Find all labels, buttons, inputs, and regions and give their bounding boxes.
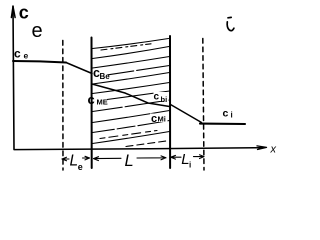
right dashed vertical (internal boundary) <box>203 39 204 171</box>
y-axis arrowhead <box>11 7 15 18</box>
svg-text:e: e <box>24 51 29 61</box>
hatch line 6 <box>93 83 170 94</box>
hatch line 3 <box>93 57 170 69</box>
profile: membrane interior <box>92 84 170 107</box>
svg-text:x: x <box>270 144 277 156</box>
hatch fragment 1b <box>101 44 151 50</box>
svg-text:ME: ME <box>97 98 108 107</box>
x-axis arrowhead <box>252 146 267 150</box>
hatch line 11 <box>93 132 170 144</box>
svg-text:Mi: Mi <box>158 114 166 123</box>
svg-text:c: c <box>19 3 29 23</box>
svg-text:e: e <box>78 162 83 172</box>
x-axis <box>14 148 256 150</box>
dimension L arrows <box>94 157 122 161</box>
dimension L_e arrows <box>62 157 69 161</box>
svg-text:L: L <box>125 152 134 170</box>
svg-text:Be: Be <box>100 72 111 81</box>
profile: c_e horizontal line <box>13 61 66 63</box>
left dashed vertical (external boundary) <box>62 41 64 171</box>
hatch line 5 <box>93 73 170 85</box>
hatch line 7 <box>107 91 170 100</box>
profile: external boundary layer <box>66 63 92 74</box>
svg-text:i: i <box>231 111 233 120</box>
hatch line 10 <box>93 121 170 133</box>
y-axis <box>13 6 14 149</box>
hatch line 4 <box>108 66 170 75</box>
svg-text:c: c <box>151 113 157 125</box>
membrane right edge <box>169 36 171 168</box>
hatch line 2 <box>93 47 170 59</box>
svg-text:c: c <box>14 47 21 61</box>
white patches under labels <box>94 69 108 79</box>
svg-text:bi: bi <box>161 95 168 104</box>
dimension L_i arrows <box>171 155 181 159</box>
hatch line 1 <box>93 39 169 49</box>
svg-text:c: c <box>223 108 229 120</box>
svg-text:e: e <box>32 20 43 42</box>
svg-text:c: c <box>88 92 95 107</box>
profile: internal boundary layer <box>171 105 202 123</box>
hatch fragment 10b <box>100 131 157 139</box>
hatch line 9 <box>93 111 170 123</box>
membrane left edge <box>91 38 93 169</box>
svg-text:c: c <box>154 92 160 103</box>
hatch line 8 <box>93 100 170 112</box>
hatch fragment 11b <box>126 141 170 147</box>
profile: c_i horizontal line <box>200 123 245 126</box>
svg-text:i: i <box>189 161 191 170</box>
label i (internal region) <box>227 17 234 30</box>
